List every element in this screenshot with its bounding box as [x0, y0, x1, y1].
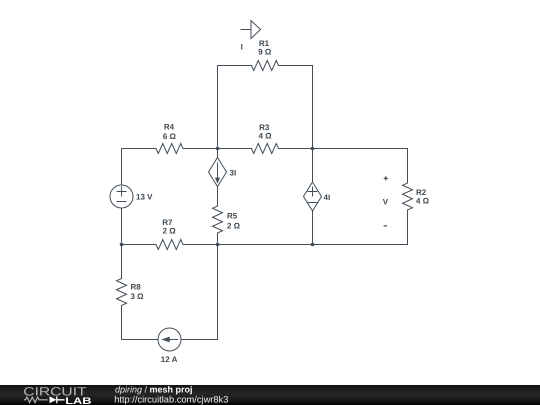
node junction	[216, 147, 220, 151]
wire	[312, 149, 314, 183]
svg-text:R8: R8	[131, 283, 142, 292]
resistor R2	[403, 183, 413, 210]
wire	[217, 187, 219, 207]
label V minus	[384, 225, 388, 227]
wire	[121, 149, 123, 186]
svg-text:2 Ω: 2 Ω	[163, 227, 177, 236]
svg-text:3I: 3I	[230, 169, 237, 178]
wire	[181, 339, 218, 341]
svg-text:12 A: 12 A	[161, 355, 178, 364]
svg-text:4 Ω: 4 Ω	[258, 131, 272, 140]
dependent voltage source 4I	[304, 182, 322, 211]
wire	[121, 306, 123, 340]
wire	[407, 149, 409, 184]
svg-text:LAB: LAB	[65, 396, 92, 405]
resistor R4	[156, 144, 183, 154]
svg-text:http://circuitlab.com/cjwr8k3: http://circuitlab.com/cjwr8k3	[114, 395, 228, 405]
svg-text:3 Ω: 3 Ω	[131, 292, 145, 301]
wire	[407, 210, 409, 245]
wire	[217, 245, 219, 340]
wire	[183, 244, 408, 246]
node junction	[311, 147, 315, 151]
node junction	[216, 243, 220, 247]
svg-text:dpiring / mesh proj: dpiring / mesh proj	[115, 385, 193, 395]
wire	[217, 66, 219, 149]
wire	[122, 339, 159, 341]
resistor R3	[252, 144, 279, 154]
node junction	[311, 243, 315, 247]
wire	[183, 148, 252, 150]
wire	[217, 233, 219, 245]
wire	[312, 211, 314, 245]
wire	[217, 245, 219, 340]
wire	[279, 148, 408, 150]
resistor R8	[117, 279, 127, 306]
dependent current source 3I	[209, 158, 227, 187]
resistor R1	[252, 61, 279, 71]
wire	[121, 245, 123, 279]
svg-text:I: I	[241, 43, 243, 52]
svg-text:6 Ω: 6 Ω	[163, 132, 177, 141]
wire	[121, 208, 123, 245]
current probe I	[241, 29, 251, 31]
label V plus	[384, 176, 388, 180]
svg-text:2 Ω: 2 Ω	[227, 222, 241, 231]
voltage source V1 13V	[110, 185, 133, 208]
CircuitLab logo diode	[50, 396, 57, 403]
wire	[279, 65, 313, 67]
wire	[312, 66, 314, 149]
node junction	[120, 243, 124, 247]
wire	[217, 149, 219, 158]
resistor R7	[156, 240, 183, 250]
wire	[218, 65, 252, 67]
svg-text:4I: 4I	[324, 193, 331, 202]
svg-text:13 V: 13 V	[136, 193, 153, 202]
svg-text:R5: R5	[227, 212, 238, 221]
CircuitLab logo resistor zigzag	[24, 397, 48, 402]
svg-text:4 Ω: 4 Ω	[416, 197, 430, 206]
svg-text:V: V	[383, 198, 389, 207]
svg-text:9 Ω: 9 Ω	[258, 48, 272, 57]
wire	[122, 244, 157, 246]
resistor R5	[213, 206, 223, 233]
wire	[122, 148, 157, 150]
svg-text:R4: R4	[164, 123, 175, 132]
current source I1 12A	[158, 328, 181, 351]
